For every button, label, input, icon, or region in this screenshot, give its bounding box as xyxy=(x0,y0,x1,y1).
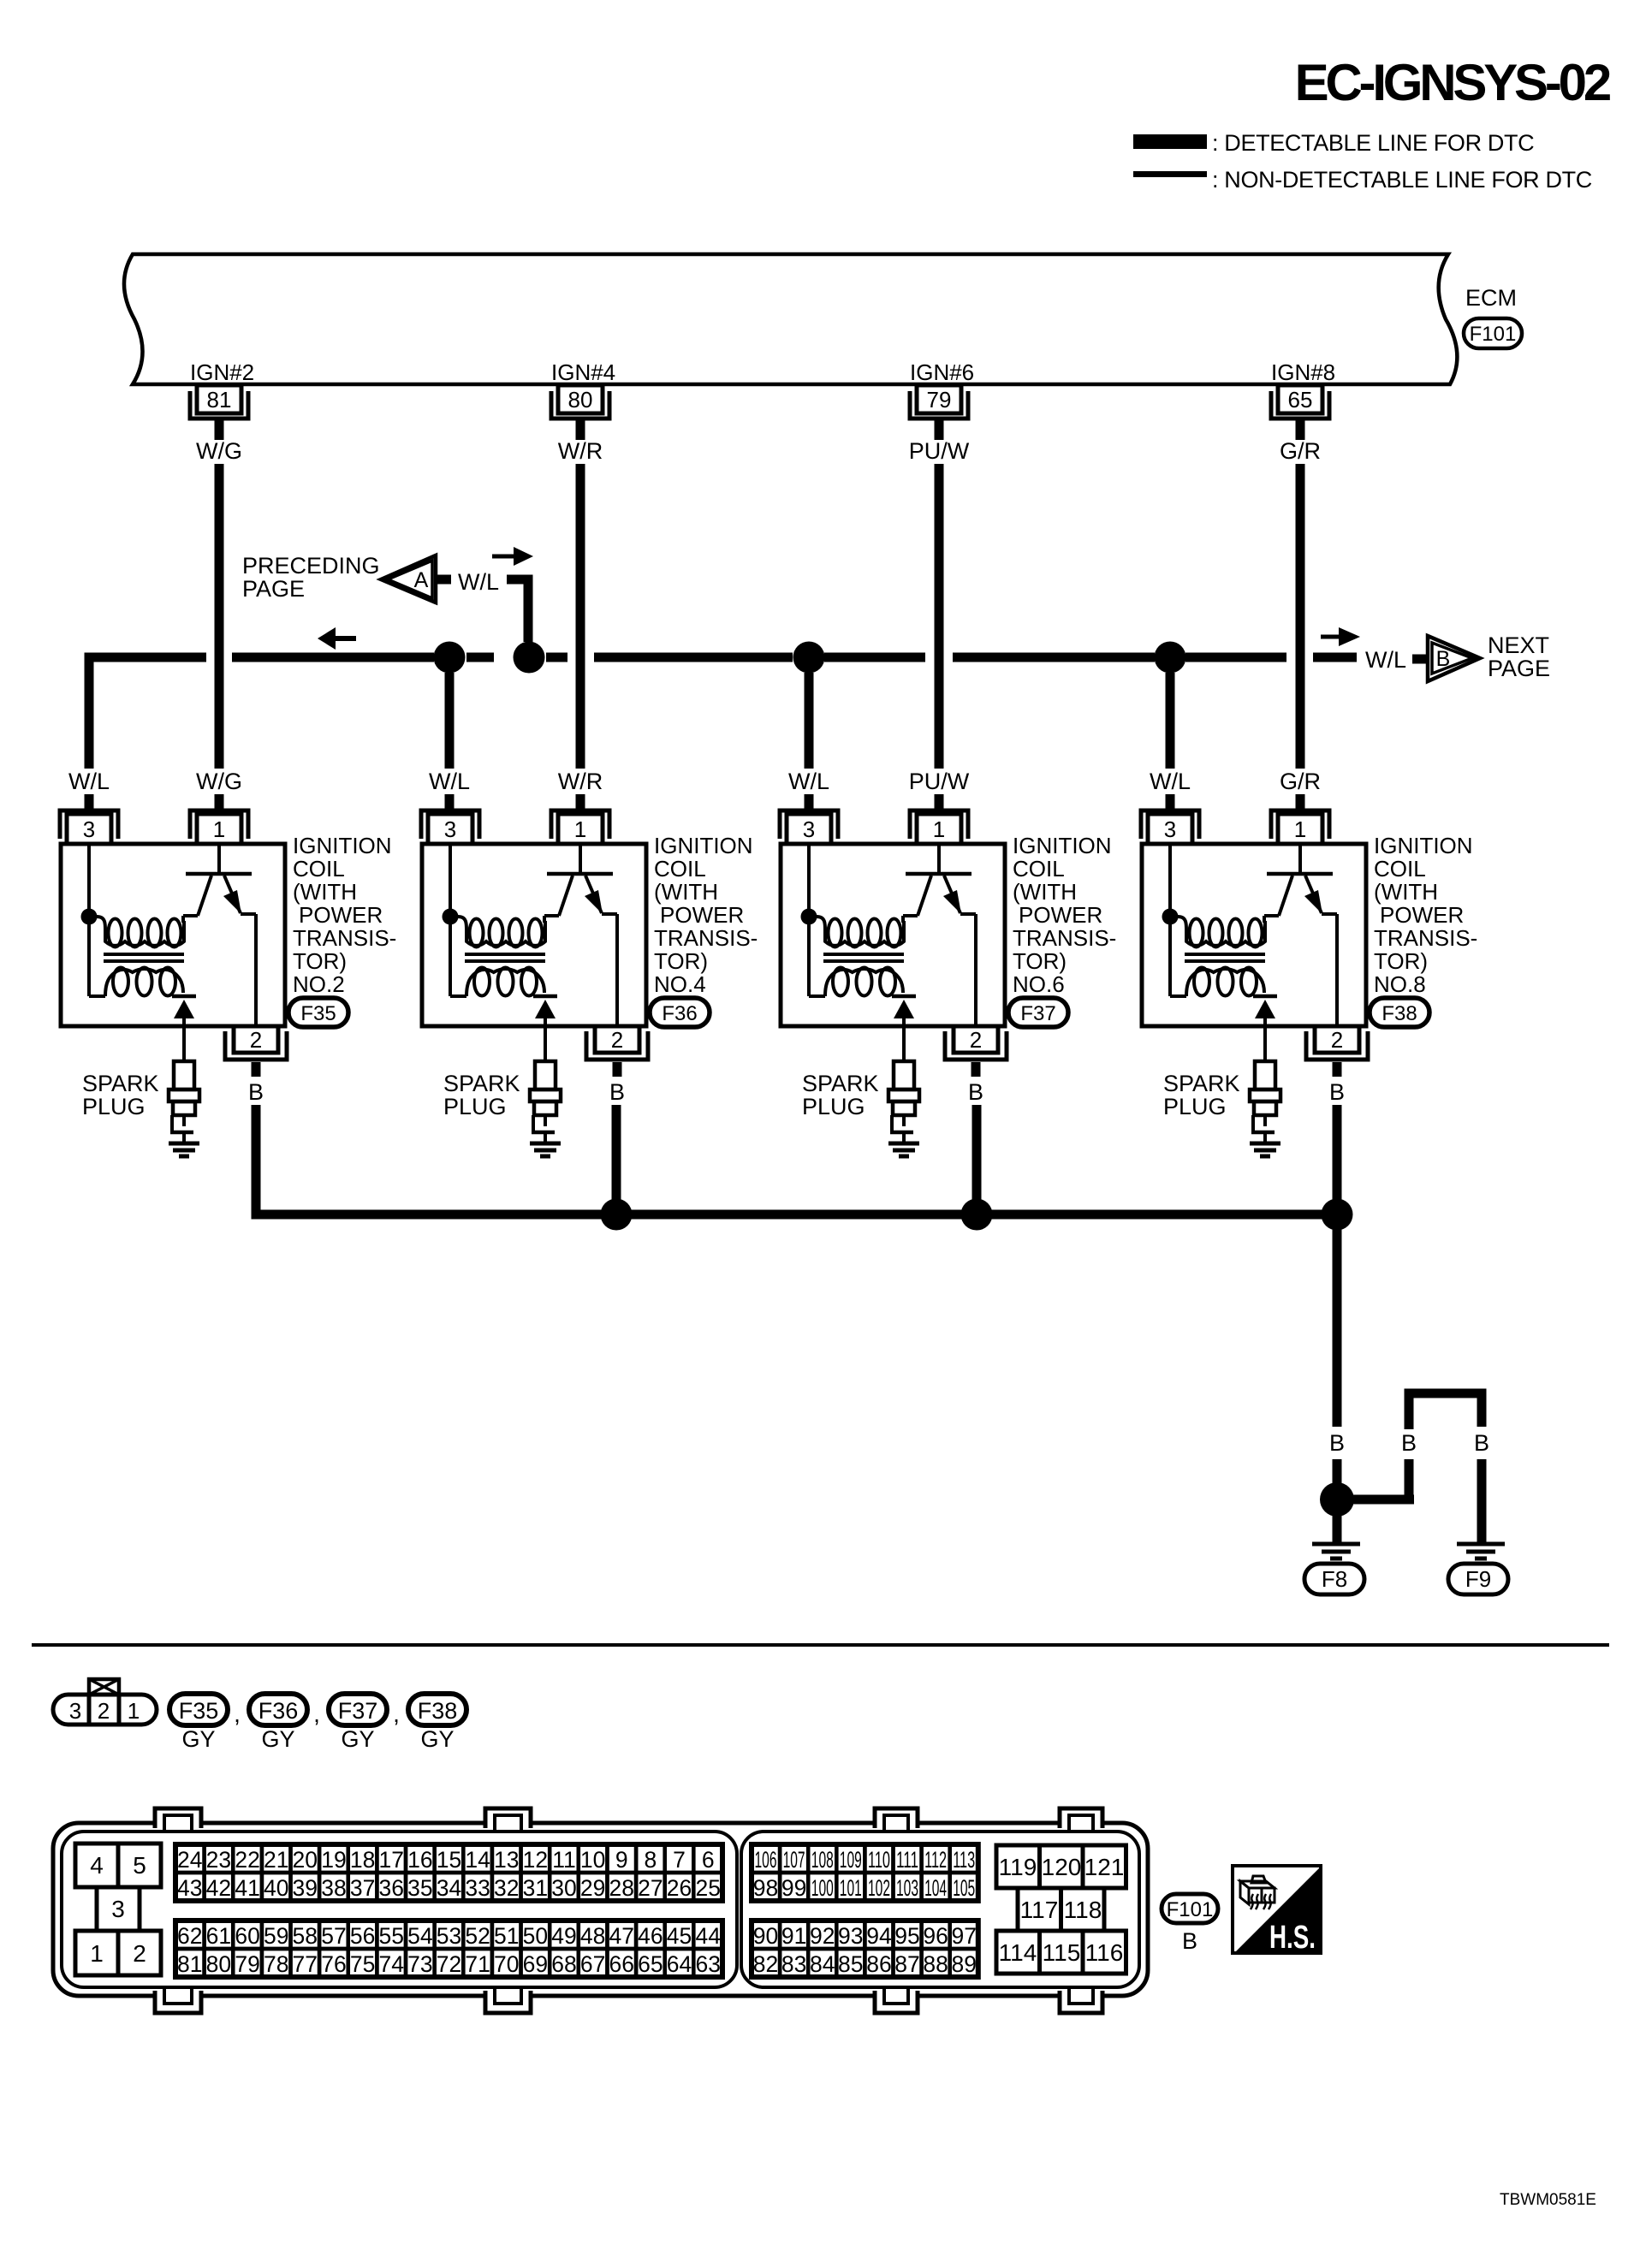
svg-text:PU/W: PU/W xyxy=(909,769,970,794)
svg-text:B: B xyxy=(1182,1928,1197,1954)
svg-text:32: 32 xyxy=(494,1875,519,1901)
svg-text:TOR): TOR) xyxy=(293,948,347,974)
primary winding L1a xyxy=(97,917,105,933)
svg-text:TRANSIS-: TRANSIS- xyxy=(1374,925,1477,951)
svg-text:2: 2 xyxy=(970,1027,982,1053)
svg-text:3: 3 xyxy=(803,816,815,842)
coil pin 2 xyxy=(1315,1026,1359,1053)
pin 3 cell xyxy=(97,1887,140,1931)
svg-text:B: B xyxy=(1329,1079,1345,1105)
legend detectable line sample xyxy=(1133,134,1207,149)
svg-text:TRANSIS-: TRANSIS- xyxy=(293,925,396,951)
legend non-detectable line sample xyxy=(1133,171,1207,177)
svg-text:110: 110 xyxy=(868,1847,890,1873)
svg-text:121: 121 xyxy=(1084,1854,1125,1880)
core lines xyxy=(465,953,545,956)
diode D3 xyxy=(892,994,916,999)
svg-text:54: 54 xyxy=(407,1923,432,1949)
primary winding L4a xyxy=(1178,917,1186,933)
wire pin3 internal xyxy=(87,844,91,996)
svg-text:61: 61 xyxy=(206,1923,231,1949)
connector triangle B xyxy=(1428,636,1480,681)
svg-text:TRANSIS-: TRANSIS- xyxy=(1013,925,1116,951)
svg-text:F101: F101 xyxy=(1167,1898,1214,1921)
svg-text:SPARK: SPARK xyxy=(1163,1071,1240,1096)
ECM connector pin grid right block xyxy=(752,1844,780,1873)
svg-text:20: 20 xyxy=(293,1847,318,1873)
svg-text:60: 60 xyxy=(235,1923,259,1949)
svg-text:85: 85 xyxy=(838,1951,863,1977)
pin 115 cell xyxy=(1040,1931,1084,1974)
coil pin 3 xyxy=(780,810,838,839)
svg-text:W/L: W/L xyxy=(788,769,829,794)
svg-text:PRECEDING: PRECEDING xyxy=(242,553,380,579)
coil pin 2 xyxy=(234,1026,278,1053)
ground F8 xyxy=(1312,1542,1360,1547)
svg-text:116: 116 xyxy=(1085,1939,1124,1966)
svg-text:80: 80 xyxy=(206,1951,231,1977)
svg-text:(WITH: (WITH xyxy=(654,879,718,905)
svg-text:81: 81 xyxy=(207,387,232,413)
svg-text:36: 36 xyxy=(378,1875,403,1901)
svg-text:B: B xyxy=(1436,647,1451,671)
svg-text:1: 1 xyxy=(128,1698,140,1724)
svg-text:55: 55 xyxy=(378,1923,403,1949)
coil pin 3 xyxy=(1141,810,1199,839)
legend F38 oval xyxy=(408,1694,466,1725)
svg-text:119: 119 xyxy=(999,1854,1037,1880)
svg-text:,: , xyxy=(393,1701,400,1727)
wire PU/W from pin 79 xyxy=(935,420,944,440)
svg-text:68: 68 xyxy=(551,1951,576,1977)
svg-text:B: B xyxy=(609,1079,625,1105)
junction dot primary tap xyxy=(81,909,98,925)
svg-text:3: 3 xyxy=(444,816,456,842)
wire B main down xyxy=(1333,1214,1342,1427)
wire pin3 internal xyxy=(1168,844,1172,996)
svg-text:3: 3 xyxy=(1164,816,1176,842)
svg-text:W/L: W/L xyxy=(68,769,110,794)
svg-text:72: 72 xyxy=(437,1951,461,1977)
svg-text:37: 37 xyxy=(350,1875,375,1901)
svg-text:109: 109 xyxy=(840,1847,862,1873)
wire W/G from pin 81 xyxy=(215,420,224,440)
svg-text:118: 118 xyxy=(1064,1897,1102,1923)
svg-text:IGN#8: IGN#8 xyxy=(1271,359,1335,385)
svg-text:62: 62 xyxy=(177,1923,202,1949)
junction dot B coil2 xyxy=(601,1199,633,1231)
diode D2 xyxy=(533,994,557,999)
svg-text:SPARK: SPARK xyxy=(802,1071,879,1096)
pin 121 cell xyxy=(1083,1845,1126,1888)
arrow right at connector A xyxy=(492,555,514,559)
svg-text:102: 102 xyxy=(868,1875,890,1901)
wire W/L bus segment xyxy=(824,653,925,662)
connector triangle A xyxy=(381,555,436,603)
svg-text:39: 39 xyxy=(293,1875,318,1901)
svg-text:47: 47 xyxy=(609,1923,634,1949)
wire B from pin 2 xyxy=(252,1062,261,1077)
svg-text:POWER: POWER xyxy=(299,902,383,928)
transistor Q4 xyxy=(1298,846,1302,872)
svg-text:22: 22 xyxy=(235,1847,259,1873)
svg-text:93: 93 xyxy=(838,1923,863,1949)
svg-text:: DETECTABLE LINE FOR DTC: : DETECTABLE LINE FOR DTC xyxy=(1212,130,1534,156)
svg-text:120: 120 xyxy=(1042,1854,1082,1880)
svg-text:33: 33 xyxy=(465,1875,490,1901)
wire W/L bus segment xyxy=(1185,653,1286,662)
node W/L bus left corner down to coil1 pin3 xyxy=(89,657,206,769)
svg-text:111: 111 xyxy=(896,1847,918,1873)
svg-text:: NON-DETECTABLE LINE FOR DTC: : NON-DETECTABLE LINE FOR DTC xyxy=(1212,167,1592,193)
svg-text:2: 2 xyxy=(1331,1027,1343,1053)
svg-text:24: 24 xyxy=(177,1847,202,1873)
svg-text:88: 88 xyxy=(923,1951,948,1977)
secondary winding L3b xyxy=(833,968,848,996)
svg-text:97: 97 xyxy=(951,1923,976,1949)
svg-text:2: 2 xyxy=(98,1698,110,1724)
svg-text:F37: F37 xyxy=(338,1698,378,1724)
svg-text:52: 52 xyxy=(465,1923,490,1949)
svg-text:(WITH: (WITH xyxy=(1013,879,1077,905)
wire W/L bus dash xyxy=(466,653,494,662)
coil pin 1 xyxy=(190,810,248,839)
wire W/L drop to coil2 xyxy=(445,673,455,769)
svg-text:75: 75 xyxy=(350,1951,375,1977)
svg-text:80: 80 xyxy=(568,387,593,413)
svg-text:COIL: COIL xyxy=(1013,856,1065,882)
wire W/L bus dash xyxy=(546,653,567,662)
svg-text:COIL: COIL xyxy=(654,856,706,882)
pin 1 cell xyxy=(75,1931,118,1975)
svg-text:53: 53 xyxy=(437,1923,461,1949)
separator line xyxy=(32,1643,1609,1647)
pin 4 cell xyxy=(75,1843,118,1887)
svg-text:99: 99 xyxy=(781,1875,806,1901)
wire W/R from pin 80 xyxy=(576,420,585,440)
svg-text:2: 2 xyxy=(250,1027,262,1053)
svg-text:ECM: ECM xyxy=(1465,285,1517,311)
spark plug ground xyxy=(169,1142,199,1146)
legend F37 oval xyxy=(329,1694,387,1725)
junction dot B coil4 xyxy=(1322,1199,1353,1231)
ECM connector pin grid left block xyxy=(175,1844,205,1873)
core lines xyxy=(104,953,184,956)
svg-text:F36: F36 xyxy=(258,1698,299,1724)
svg-text:64: 64 xyxy=(667,1951,692,1977)
svg-text:83: 83 xyxy=(781,1951,806,1977)
pin 116 cell xyxy=(1083,1931,1126,1974)
pin 119 cell xyxy=(996,1845,1040,1888)
primary winding L3a xyxy=(817,917,825,933)
svg-text:66: 66 xyxy=(609,1951,634,1977)
svg-text:POWER: POWER xyxy=(1019,902,1102,928)
svg-text:59: 59 xyxy=(264,1923,288,1949)
coil pin 3 xyxy=(421,810,479,839)
svg-text:W/G: W/G xyxy=(196,769,242,794)
svg-text:TBWM0581E: TBWM0581E xyxy=(1500,2191,1596,2209)
svg-text:3: 3 xyxy=(69,1698,81,1724)
svg-text:67: 67 xyxy=(580,1951,605,1977)
svg-text:65: 65 xyxy=(638,1951,663,1977)
svg-text:W/L: W/L xyxy=(1365,647,1406,673)
svg-text:F35: F35 xyxy=(300,1002,336,1025)
svg-text:42: 42 xyxy=(206,1875,231,1901)
secondary winding L2b xyxy=(474,968,490,996)
svg-text:F38: F38 xyxy=(1382,1002,1417,1025)
svg-text:106: 106 xyxy=(755,1847,777,1873)
ECM connector shell outer xyxy=(53,1823,1148,1996)
wire to F9 branch xyxy=(1344,1495,1414,1505)
svg-text:25: 25 xyxy=(695,1875,720,1901)
coil pin 1 xyxy=(551,810,609,839)
svg-text:79: 79 xyxy=(235,1951,259,1977)
svg-text:PLUG: PLUG xyxy=(1163,1094,1227,1119)
svg-text:91: 91 xyxy=(781,1923,806,1949)
ground F9 xyxy=(1457,1542,1505,1547)
connector tab top xyxy=(875,1806,918,1828)
svg-text:PU/W: PU/W xyxy=(909,438,970,464)
svg-text:IGNITION: IGNITION xyxy=(293,833,392,858)
transistor Q1 xyxy=(217,846,221,872)
svg-text:23: 23 xyxy=(206,1847,231,1873)
svg-text:TRANSIS-: TRANSIS- xyxy=(654,925,758,951)
svg-text:8: 8 xyxy=(645,1847,657,1873)
svg-text:30: 30 xyxy=(551,1875,576,1901)
svg-text:101: 101 xyxy=(840,1875,862,1901)
primary winding L2a xyxy=(458,917,466,933)
svg-text:100: 100 xyxy=(811,1875,834,1901)
spark plug ground xyxy=(1250,1142,1281,1146)
svg-text:38: 38 xyxy=(321,1875,346,1901)
svg-text:46: 46 xyxy=(638,1923,663,1949)
svg-text:NO.8: NO.8 xyxy=(1374,971,1426,997)
svg-text:F101: F101 xyxy=(1470,323,1517,346)
svg-text:57: 57 xyxy=(321,1923,346,1949)
svg-text:103: 103 xyxy=(896,1875,918,1901)
svg-text:G/R: G/R xyxy=(1280,769,1321,794)
svg-text:POWER: POWER xyxy=(1380,902,1464,928)
svg-text:W/G: W/G xyxy=(196,438,242,464)
wire pin3 internal xyxy=(449,844,452,996)
svg-text:SPARK: SPARK xyxy=(82,1071,159,1096)
legend F35 oval xyxy=(169,1694,228,1725)
junction dot primary tap xyxy=(801,909,817,925)
svg-text:35: 35 xyxy=(407,1875,432,1901)
svg-text:112: 112 xyxy=(924,1847,947,1873)
svg-text:98: 98 xyxy=(753,1875,778,1901)
svg-text:16: 16 xyxy=(407,1847,432,1873)
svg-text:41: 41 xyxy=(235,1875,259,1901)
svg-text:PLUG: PLUG xyxy=(82,1094,146,1119)
core lines xyxy=(1185,953,1265,956)
svg-text:9: 9 xyxy=(615,1847,628,1873)
ECM connector shell inner right half xyxy=(741,1832,1139,1987)
svg-text:19: 19 xyxy=(321,1847,346,1873)
svg-text:79: 79 xyxy=(927,387,952,413)
junction dot coil3 W/L xyxy=(793,642,825,674)
junction dot ground node xyxy=(1320,1482,1354,1517)
svg-text:W/R: W/R xyxy=(558,438,603,464)
svg-text:81: 81 xyxy=(177,1951,202,1977)
junction dot primary tap xyxy=(1162,909,1179,925)
legend connector 3 2 1 xyxy=(53,1695,157,1725)
svg-text:IGNITION: IGNITION xyxy=(654,833,753,858)
wire B drop coil3 xyxy=(972,1105,982,1214)
pin 117 cell xyxy=(1018,1888,1061,1931)
svg-text:58: 58 xyxy=(293,1923,318,1949)
wire G/R from pin 65 xyxy=(1296,420,1305,440)
svg-text:TOR): TOR) xyxy=(654,948,708,974)
coil pin 1 xyxy=(1271,810,1329,839)
coil connector F35 oval xyxy=(288,998,348,1027)
svg-text:PLUG: PLUG xyxy=(443,1094,507,1119)
connector tab bottom xyxy=(485,1991,531,2016)
svg-text:IGNITION: IGNITION xyxy=(1374,833,1473,858)
svg-text:5: 5 xyxy=(133,1852,146,1879)
svg-text:84: 84 xyxy=(810,1951,835,1977)
svg-text:SPARK: SPARK xyxy=(443,1071,520,1096)
svg-text:40: 40 xyxy=(264,1875,288,1901)
svg-text:117: 117 xyxy=(1020,1897,1059,1923)
svg-text:F8: F8 xyxy=(1322,1566,1347,1592)
svg-text:W/L: W/L xyxy=(429,769,470,794)
svg-text:1: 1 xyxy=(574,816,586,842)
svg-text:77: 77 xyxy=(293,1951,318,1977)
svg-text:,: , xyxy=(313,1701,320,1727)
svg-text:96: 96 xyxy=(923,1923,948,1949)
svg-text:17: 17 xyxy=(378,1847,403,1873)
svg-text:F37: F37 xyxy=(1020,1002,1055,1025)
ignition coil U2 NO.4 box xyxy=(422,844,646,1026)
svg-text:90: 90 xyxy=(753,1923,778,1949)
svg-text:82: 82 xyxy=(753,1951,778,1977)
coil connector F38 oval xyxy=(1370,998,1429,1027)
svg-text:(WITH: (WITH xyxy=(293,879,357,905)
svg-text:105: 105 xyxy=(953,1875,975,1901)
svg-text:B: B xyxy=(1329,1430,1345,1456)
svg-text:,: , xyxy=(234,1701,241,1727)
svg-text:7: 7 xyxy=(673,1847,686,1873)
junction dot primary tap xyxy=(443,909,459,925)
ECM box outline xyxy=(124,254,1457,384)
svg-text:B: B xyxy=(1474,1430,1489,1456)
svg-text:PLUG: PLUG xyxy=(802,1094,865,1119)
svg-text:27: 27 xyxy=(638,1875,663,1901)
svg-text:PAGE: PAGE xyxy=(1488,656,1550,681)
svg-text:14: 14 xyxy=(465,1847,490,1873)
svg-text:1: 1 xyxy=(933,816,945,842)
svg-text:29: 29 xyxy=(580,1875,605,1901)
svg-text:GY: GY xyxy=(420,1726,454,1752)
ignition coil U4 NO.8 box xyxy=(1142,844,1366,1026)
connector tab bottom xyxy=(875,1991,918,2016)
svg-text:NO.6: NO.6 xyxy=(1013,971,1065,997)
svg-text:4: 4 xyxy=(90,1852,104,1879)
connector tab bottom xyxy=(1060,1991,1102,2016)
svg-text:COIL: COIL xyxy=(293,856,345,882)
svg-text:43: 43 xyxy=(177,1875,202,1901)
svg-text:95: 95 xyxy=(894,1923,919,1949)
svg-text:113: 113 xyxy=(953,1847,975,1873)
wire B from pin 2 xyxy=(972,1062,981,1077)
junction dot connector A drop xyxy=(514,642,545,674)
wire pin3 internal xyxy=(807,844,811,996)
svg-text:COIL: COIL xyxy=(1374,856,1426,882)
svg-text:74: 74 xyxy=(378,1951,403,1977)
transistor Q3 xyxy=(937,846,941,872)
ignition coil U1 NO.2 box xyxy=(61,844,285,1026)
svg-text:1: 1 xyxy=(213,816,225,842)
diode D4 xyxy=(1253,994,1277,999)
svg-text:31: 31 xyxy=(523,1875,548,1901)
coil pin 3 xyxy=(60,810,118,839)
svg-text:87: 87 xyxy=(894,1951,919,1977)
svg-text:1: 1 xyxy=(1294,816,1306,842)
svg-text:IGNITION: IGNITION xyxy=(1013,833,1112,858)
svg-text:B: B xyxy=(1401,1430,1417,1456)
coil pin 2 xyxy=(954,1026,998,1053)
svg-text:13: 13 xyxy=(494,1847,519,1873)
svg-text:78: 78 xyxy=(264,1951,288,1977)
svg-text:107: 107 xyxy=(783,1847,805,1873)
svg-text:H.S.: H.S. xyxy=(1269,1920,1316,1956)
svg-text:1: 1 xyxy=(90,1940,104,1967)
svg-text:F36: F36 xyxy=(662,1002,697,1025)
svg-text:GY: GY xyxy=(261,1726,294,1752)
svg-text:114: 114 xyxy=(999,1939,1037,1966)
coil pin 1 xyxy=(910,810,968,839)
H.S. logo xyxy=(1233,1866,1321,1953)
svg-text:F38: F38 xyxy=(418,1698,458,1724)
svg-text:104: 104 xyxy=(924,1875,947,1901)
svg-text:18: 18 xyxy=(350,1847,375,1873)
svg-text:A: A xyxy=(414,568,429,592)
svg-text:15: 15 xyxy=(437,1847,461,1873)
svg-text:W/L: W/L xyxy=(458,569,499,595)
svg-text:IGN#2: IGN#2 xyxy=(190,359,254,385)
svg-text:50: 50 xyxy=(523,1923,548,1949)
junction dot coil4 W/L xyxy=(1155,642,1186,674)
transistor Q2 xyxy=(579,846,582,872)
diode D1 xyxy=(172,994,196,999)
svg-text:EC-IGNSYS-02: EC-IGNSYS-02 xyxy=(1295,54,1610,111)
svg-text:70: 70 xyxy=(494,1951,519,1977)
connector tab bottom xyxy=(155,1991,201,2016)
svg-text:NEXT: NEXT xyxy=(1488,632,1549,658)
svg-text:34: 34 xyxy=(437,1875,461,1901)
svg-text:56: 56 xyxy=(350,1923,375,1949)
svg-text:PAGE: PAGE xyxy=(242,576,305,602)
svg-text:26: 26 xyxy=(667,1875,692,1901)
secondary winding L4b xyxy=(1194,968,1209,996)
svg-text:(WITH: (WITH xyxy=(1374,879,1438,905)
svg-text:21: 21 xyxy=(264,1847,288,1873)
svg-text:86: 86 xyxy=(866,1951,891,1977)
svg-text:B: B xyxy=(968,1079,983,1105)
junction dot B coil3 xyxy=(961,1199,993,1231)
legend F36 oval xyxy=(249,1694,307,1725)
ECM connector shell inner left half xyxy=(62,1832,737,1987)
ignition coil U3 NO.6 box xyxy=(781,844,1005,1026)
connector tab top xyxy=(485,1806,531,1828)
svg-text:W/R: W/R xyxy=(558,769,603,794)
svg-text:115: 115 xyxy=(1043,1939,1081,1966)
core lines xyxy=(823,953,904,956)
coil connector F36 oval xyxy=(650,998,710,1027)
svg-text:2: 2 xyxy=(133,1940,146,1967)
svg-text:W/L: W/L xyxy=(1150,769,1191,794)
